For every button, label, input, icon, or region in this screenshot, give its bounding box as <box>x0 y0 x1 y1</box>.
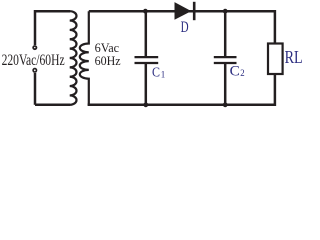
svg-text:1: 1 <box>161 69 166 79</box>
svg-text:D: D <box>181 19 189 36</box>
wire: primary loop left wire upper segment <box>34 10 37 45</box>
capacitor C2 bottom plate <box>214 62 237 64</box>
node: junction dot bottom rail at C1 <box>143 102 148 107</box>
capacitor C2 top plate <box>214 56 237 58</box>
node: junction dot top rail at C2 <box>223 9 228 14</box>
wire: secondary top rail <box>89 11 275 43</box>
node: AC source bottom terminal <box>32 68 37 73</box>
wire: primary loop bottom wire <box>35 104 70 107</box>
capacitor C1 top plate <box>135 56 159 58</box>
capacitor C1 bottom lead <box>145 64 148 105</box>
svg-text:2: 2 <box>240 68 244 78</box>
wire: primary loop top wire <box>35 10 70 13</box>
transformer T1 secondary winding with stems <box>80 11 89 105</box>
svg-text:C: C <box>152 66 160 81</box>
svg-text:220Vac/60Hz: 220Vac/60Hz <box>2 52 65 69</box>
transformer T1 primary winding <box>70 11 77 105</box>
diode D cathode bar <box>193 2 196 20</box>
diode D triangle <box>175 2 192 20</box>
svg-text:RL: RL <box>285 47 303 67</box>
resistor RL body <box>268 44 283 75</box>
capacitor C2 bottom lead <box>224 64 227 105</box>
wire: primary loop left wire lower segment <box>34 73 37 105</box>
svg-text:60Hz: 60Hz <box>95 53 121 68</box>
capacitor C2 top lead <box>224 11 227 56</box>
capacitor C1 bottom plate <box>135 62 159 64</box>
node: AC source top terminal <box>32 45 37 50</box>
svg-text:C: C <box>230 63 240 79</box>
node: junction dot top rail at C1 <box>143 9 148 14</box>
capacitor C1 top lead <box>145 11 148 56</box>
node: junction dot bottom rail at C2 <box>223 102 228 107</box>
wire: secondary bottom rail <box>88 74 275 105</box>
